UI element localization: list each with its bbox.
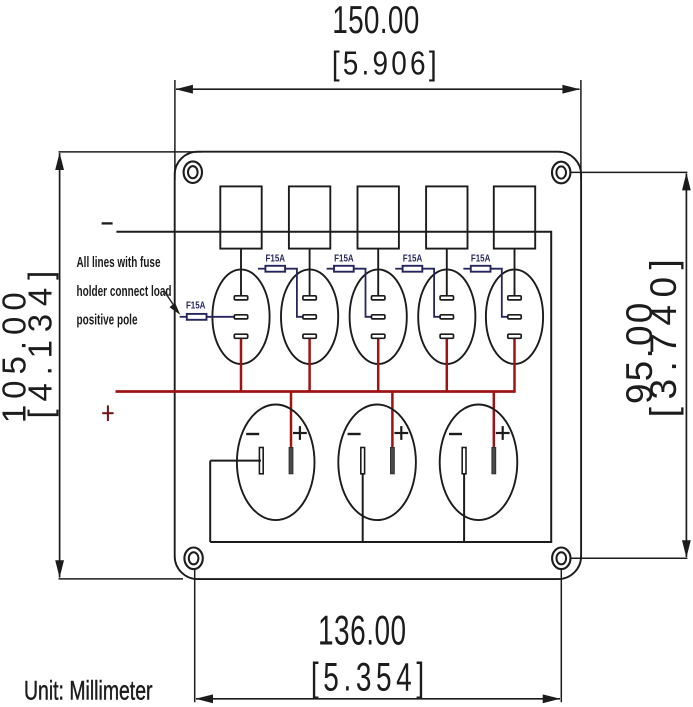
svg-text:F15A: F15A <box>403 253 423 265</box>
svg-text:F15A: F15A <box>471 253 491 265</box>
svg-text:[4.134]: [4.134] <box>21 263 58 419</box>
svg-text:positive pole: positive pole <box>77 311 138 328</box>
svg-text:F15A: F15A <box>334 253 354 265</box>
svg-text:[5.354]: [5.354] <box>311 656 429 700</box>
svg-text:[3.740]: [3.740] <box>643 252 684 418</box>
svg-text:150.00: 150.00 <box>332 0 419 42</box>
svg-text:All lines with fuse: All lines with fuse <box>77 254 161 271</box>
svg-text:[5.906]: [5.906] <box>332 44 440 82</box>
svg-text:F15A: F15A <box>266 253 286 265</box>
svg-text:Unit: Millimeter: Unit: Millimeter <box>24 676 153 706</box>
svg-text:holder connect load: holder connect load <box>77 283 172 300</box>
svg-text:F15A: F15A <box>186 300 206 312</box>
svg-text:136.00: 136.00 <box>318 608 407 654</box>
